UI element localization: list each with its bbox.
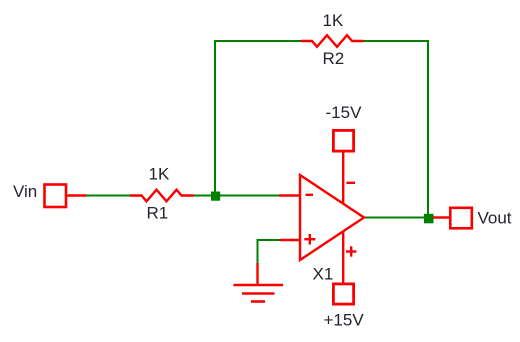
op-amp negative supply pin xyxy=(342,152,344,203)
op-amp non-inverting input stub xyxy=(280,239,301,241)
op-amp positive supply pin xyxy=(342,232,344,284)
svg-text:1K: 1K xyxy=(149,165,170,184)
wire non-inverting input to ground xyxy=(258,240,282,264)
terminal +15V box xyxy=(333,284,353,304)
wire feedback vertical right xyxy=(427,40,429,218)
svg-text:R2: R2 xyxy=(323,49,345,68)
op-amp inverting input stub xyxy=(279,194,300,196)
terminal -15V box xyxy=(333,130,353,151)
node junction at inverting input xyxy=(211,192,220,201)
wire input port to R1 xyxy=(85,195,132,197)
wire op-amp output xyxy=(364,217,430,219)
port Vout box xyxy=(450,208,472,229)
svg-text:Vin: Vin xyxy=(13,182,37,201)
wire R1 to inverting input xyxy=(193,195,280,197)
node junction at output xyxy=(424,214,434,224)
wire R2 to right corner xyxy=(363,40,429,42)
ground symbol xyxy=(233,285,283,302)
wire feedback top left xyxy=(214,40,302,42)
svg-text:+15V: +15V xyxy=(324,311,365,330)
port Vout lead xyxy=(433,216,450,218)
ground lead xyxy=(256,263,258,285)
resistor R2 xyxy=(301,35,364,47)
op-amp minus sign inside xyxy=(306,194,314,196)
port Vin lead xyxy=(65,194,86,196)
op-amp plus sign inside xyxy=(304,234,315,245)
wire feedback vertical left xyxy=(214,40,216,196)
op-amp plus sign at positive supply xyxy=(346,246,356,256)
op-amp minus sign at negative supply xyxy=(346,182,355,184)
svg-text:Vout: Vout xyxy=(478,209,512,228)
resistor R1 xyxy=(130,190,194,202)
op-amp X1 triangle xyxy=(300,175,364,260)
svg-text:X1: X1 xyxy=(313,265,334,284)
svg-text:R1: R1 xyxy=(147,204,169,223)
port Vin box xyxy=(45,185,67,208)
svg-text:1K: 1K xyxy=(323,11,344,30)
svg-text:-15V: -15V xyxy=(326,103,363,122)
